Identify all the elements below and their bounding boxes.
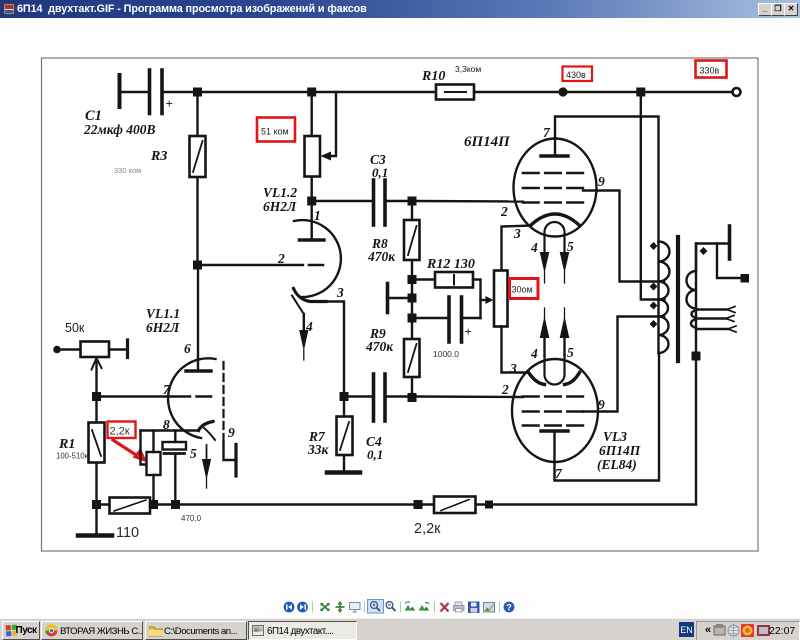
- svg-text:3: 3: [513, 226, 521, 241]
- toolbar icon: save: [469, 602, 480, 613]
- svg-text:6П14П: 6П14П: [464, 134, 511, 150]
- wire VL2 control grid pin 2: [417, 200, 524, 203]
- wire input to C1: [121, 91, 148, 93]
- secondary top T-bar terminal: [728, 226, 732, 259]
- wire secondary output branch: [717, 244, 740, 279]
- red annotation box 51 ком: [257, 118, 295, 142]
- svg-text:3: 3: [336, 285, 344, 300]
- VL1.2 envelope arc: [294, 220, 341, 297]
- svg-text:6Н2Л: 6Н2Л: [263, 199, 297, 214]
- trimmer top lead: [152, 431, 154, 453]
- pot wiper arrowhead: [321, 152, 332, 161]
- pentode VL3 envelope: [512, 359, 598, 462]
- svg-text:6Н2Л: 6Н2Л: [146, 320, 180, 335]
- VL2 grid dashes row2: [523, 187, 583, 190]
- pentode VL2 6П14П envelope: [514, 139, 597, 237]
- svg-text:470к: 470к: [367, 249, 396, 264]
- svg-text:110: 110: [116, 525, 139, 541]
- wire VL3 anode to primary bottom: [555, 353, 660, 481]
- svg-text:R10: R10: [421, 69, 445, 84]
- pot 50к right T-bar: [126, 340, 129, 358]
- svg-text:51 ком: 51 ком: [261, 127, 289, 137]
- wire pot 30ом bottom to VL3 cathode: [502, 327, 529, 373]
- pot 50к wiper arrow: [95, 362, 97, 397]
- node junction B+ at transformer: [636, 88, 645, 97]
- VL3 grid dashes row1: [523, 395, 583, 398]
- pot wiper wire from rail: [328, 92, 336, 156]
- VL1.1 shield dashed line pin 9: [222, 362, 224, 442]
- svg-text:6: 6: [184, 341, 191, 356]
- VL1.2 anode lead pin 1: [311, 205, 313, 239]
- svg-text:0,1: 0,1: [367, 447, 383, 462]
- resistor R8 470к: [404, 220, 420, 260]
- VL3 heater pin 4 arrow up: [540, 316, 550, 338]
- VL1.2 anode plate: [300, 238, 325, 241]
- node junction at 51k pot: [307, 88, 316, 97]
- taskbar: [0, 618, 800, 640]
- wire bottom rail: [97, 503, 697, 505]
- schematic image frame: [42, 58, 759, 551]
- VL2 anode plate pin 7: [541, 154, 568, 157]
- svg-text:2: 2: [277, 251, 285, 266]
- node junction trimmer bottom: [149, 500, 158, 509]
- resistor R10 3,3ком: [436, 85, 474, 100]
- toolbar icon: help: [504, 602, 515, 613]
- input terminal bar (to C1): [118, 75, 122, 107]
- toolbar separator 3: [400, 602, 402, 613]
- secondary output square terminal: [741, 274, 750, 283]
- svg-text:5: 5: [567, 345, 574, 360]
- VL1.2 heater curve: [292, 296, 304, 315]
- wire capacitor to pot wiper line: [464, 317, 481, 319]
- resistor R1 100-510к: [89, 423, 105, 463]
- VL2 grid dashes row3: [523, 201, 583, 204]
- node B junction R8/R12: [408, 275, 417, 284]
- red annotation box 430в: [563, 67, 593, 82]
- wire VL1.2 grid: [202, 264, 303, 266]
- toolbar separator 2: [364, 602, 366, 613]
- primary polarity dot 2: [650, 283, 658, 291]
- node junction at C1/R3: [193, 88, 202, 97]
- svg-text:2: 2: [501, 382, 509, 397]
- svg-text:0,1: 0,1: [372, 165, 388, 180]
- capacitor 470.0 plate (rectangle): [163, 442, 187, 450]
- VL3 grid dashes row3: [523, 424, 583, 427]
- VL3 grid dashes row2: [523, 410, 583, 413]
- svg-text:1: 1: [314, 208, 321, 223]
- svg-text:33к: 33к: [307, 442, 330, 457]
- svg-text:330 ком: 330 ком: [114, 166, 141, 175]
- toolbar separator 4: [434, 602, 436, 613]
- primary polarity dot 1: [650, 242, 658, 250]
- svg-text:4: 4: [530, 240, 538, 255]
- svg-text:2,2к: 2,2к: [414, 521, 441, 537]
- secondary polarity dot: [700, 247, 708, 255]
- trimmer bottom lead: [152, 475, 154, 505]
- wire node B to R12: [417, 278, 436, 280]
- wire VL2 cathode to pot 30ом top: [502, 226, 532, 271]
- toolbar icon: delete: [441, 603, 449, 612]
- input terminal dot: [53, 346, 61, 354]
- node junction VL1.2 cathode / R7 / C4: [340, 392, 349, 401]
- svg-text:(EL84): (EL84): [597, 457, 637, 472]
- potentiometer 30ом body: [494, 271, 508, 327]
- wire cathode bracket to trimmer: [141, 431, 147, 465]
- svg-text:2: 2: [500, 204, 508, 219]
- svg-text:4: 4: [530, 346, 538, 361]
- wire C4 to node C: [387, 395, 408, 397]
- resistor 110 body: [110, 498, 151, 514]
- red annotation box 330в: [696, 61, 727, 78]
- capacitor 470.0 plate (line): [164, 452, 185, 455]
- svg-text:430в: 430в: [566, 70, 586, 80]
- capacitor 470.0 bottom lead: [174, 454, 176, 505]
- wire B+ to primary center tap: [641, 97, 665, 300]
- svg-text:9: 9: [228, 425, 235, 440]
- pot 30ом wiper arrow: [481, 299, 487, 301]
- svg-text:9: 9: [598, 174, 605, 189]
- secondary tap 1: [696, 308, 727, 310]
- VL1.1 heater pin 5 arrow: [206, 445, 208, 462]
- toolbar icon: rotate clockwise: [419, 602, 430, 610]
- svg-text:3: 3: [509, 361, 517, 376]
- VL3 heater loop: [545, 355, 565, 385]
- VL3 cathode arch left: [529, 373, 545, 385]
- node A junction (R3 / VL1.2 grid / VL1.1 anode): [193, 261, 202, 270]
- node C junction R9/C4/VL3 grid: [408, 393, 417, 402]
- svg-text:470к: 470к: [365, 339, 394, 354]
- red annotation box 2,2к: [108, 422, 136, 439]
- wire pot 50к right terminal: [109, 348, 126, 350]
- svg-text:R3: R3: [150, 149, 167, 164]
- svg-text:3,3ком: 3,3ком: [455, 64, 481, 74]
- primary polarity dot 3: [650, 302, 658, 310]
- VL1.1 envelope arc: [168, 358, 215, 438]
- transformer T1 primary winding: [657, 242, 659, 354]
- toolbar icon: edit picture: [484, 603, 495, 613]
- pin 9 terminal bar: [234, 445, 237, 477]
- wire node to C4: [349, 395, 372, 397]
- resistor R3 330ком: [190, 136, 206, 177]
- svg-text:VL1.1: VL1.1: [146, 306, 180, 321]
- node junction feedback resistor right: [485, 501, 493, 509]
- svg-text:9: 9: [598, 397, 605, 412]
- toolbar icon: zoom out: [386, 602, 395, 611]
- VL2 heater pin 5 arrow: [560, 252, 570, 273]
- svg-text:+: +: [465, 324, 472, 339]
- node junction secondary bottom: [692, 352, 701, 361]
- VL3 heater pin 5 arrow up: [560, 316, 570, 338]
- capacitor C1 22мкф 400В: [150, 70, 163, 114]
- VL1.2 heater lead pin 4 arrow: [303, 314, 305, 333]
- toolbar icon: actual size: [336, 602, 345, 612]
- svg-text:50к: 50к: [65, 321, 85, 335]
- primary polarity dot 4: [650, 320, 658, 328]
- wire pin 9 to terminal bar: [224, 442, 235, 460]
- toolbar icon: rotate counterclockwise: [405, 602, 416, 610]
- secondary tap 2: [696, 317, 726, 319]
- svg-text:EN: EN: [680, 625, 693, 635]
- tap T-bar: [389, 297, 408, 299]
- toolbar icon: next image: [297, 602, 308, 613]
- wire VL1.1 cathode to bias network: [141, 429, 199, 431]
- wire junction to pot R2: [311, 92, 313, 201]
- VL2 heater loop: [545, 222, 565, 252]
- svg-text:+: +: [166, 96, 173, 111]
- node junction grid tap: [408, 294, 417, 303]
- toolbar icon: print: [454, 602, 465, 612]
- wire C3 to R8 node: [387, 200, 408, 202]
- resistor R12 130: [435, 272, 473, 288]
- wire node C to VL3 grid: [417, 395, 524, 398]
- transformer core: [676, 237, 680, 361]
- wire C1 to R10: [164, 91, 437, 93]
- wire VL2 screen pin 9 to primary tap: [583, 191, 664, 282]
- svg-text:1000.0: 1000.0: [433, 349, 459, 359]
- wire VL3 screen pin 9 to primary tap: [583, 317, 664, 412]
- wire VL2 anode to transformer primary top: [555, 117, 659, 242]
- toolbar icon: previous image: [284, 602, 295, 613]
- trimmer resistor 2,2к body: [147, 452, 161, 475]
- svg-text:5: 5: [190, 446, 197, 461]
- wire secondary bottom to feedback rail: [695, 356, 697, 505]
- svg-text:30ом: 30ом: [512, 285, 533, 295]
- measurement node dot 430в: [558, 87, 567, 96]
- wire VL1.2 cathode down to C4 node: [326, 302, 344, 393]
- node junction feedback resistor left: [414, 500, 423, 509]
- capacitor C3 0,1: [374, 180, 386, 225]
- wire middle column: [411, 205, 413, 393]
- wire R7 column: [343, 401, 345, 471]
- svg-text:100-510к: 100-510к: [56, 452, 89, 461]
- toolbar icon: zoom in (selected): [368, 600, 384, 614]
- svg-text:5: 5: [567, 239, 574, 254]
- svg-text:R12 130: R12 130: [426, 257, 475, 272]
- title bar: [0, 0, 800, 18]
- resistor R7 33к: [337, 417, 353, 456]
- red annotation box 30ом: [510, 279, 539, 299]
- VL2 heater pin 4 arrow: [540, 252, 550, 273]
- ground bar at R1: [78, 533, 112, 538]
- VL1.1 heater curve: [204, 428, 215, 440]
- wire R12 to pot wiper: [473, 280, 481, 319]
- VL1.1 anode plate pin 6: [186, 369, 211, 372]
- capacitor 470.0 top lead: [174, 431, 176, 443]
- wire R1 column: [95, 401, 97, 534]
- VL1.1 cathode pin 8: [199, 422, 214, 431]
- wire input to pot 50к: [59, 348, 81, 350]
- VL1.2 cathode: [294, 289, 327, 302]
- VL3 anode plate: [541, 429, 568, 432]
- red annotation arrow: [113, 440, 136, 455]
- node junction R1 bottom: [92, 500, 101, 509]
- capacitor C4 0,1: [374, 374, 386, 421]
- svg-text:?: ?: [506, 603, 512, 613]
- VL3 cathode arch right: [565, 373, 580, 385]
- wire node A to VL1.1 anode: [197, 269, 199, 370]
- node junction C3/R8/VL2 grid: [408, 197, 417, 206]
- open terminal 330в: [733, 88, 741, 96]
- wire VL1.1 grid pin 7: [101, 395, 190, 397]
- wire R10 to B+ terminal: [474, 91, 732, 93]
- ground bar at R7: [327, 470, 360, 475]
- wire secondary top lead: [696, 244, 728, 272]
- toolbar icon: best fit: [321, 604, 329, 611]
- transformer secondary winding: [695, 244, 697, 357]
- svg-text:330в: 330в: [700, 66, 720, 76]
- VL2 grid dashes row1: [523, 172, 583, 175]
- wire anode node to C3: [316, 200, 371, 202]
- svg-text:470.0: 470.0: [181, 514, 202, 523]
- VL2 cathode arch: [531, 214, 579, 225]
- node junction VL1.2 anode: [307, 197, 316, 206]
- svg-text:2,2к: 2,2к: [110, 426, 130, 438]
- svg-text:4: 4: [305, 319, 313, 334]
- node junction cap 1000: [408, 314, 417, 323]
- svg-text:R1: R1: [58, 437, 75, 452]
- secondary tap 3: [696, 328, 728, 330]
- resistor R9 470к: [404, 339, 420, 377]
- svg-text:22мкф 400В: 22мкф 400В: [83, 122, 156, 137]
- node junction capacitor bottom: [171, 500, 180, 509]
- svg-text:6П14П: 6П14П: [599, 443, 641, 458]
- toolbar separator 5: [499, 602, 501, 613]
- node junction 50к wiper / VL1.1 grid: [92, 392, 101, 401]
- svg-text:VL3: VL3: [603, 429, 627, 444]
- svg-text:VL1.2: VL1.2: [263, 185, 297, 200]
- wire junction to R3 and node A: [196, 92, 198, 265]
- potentiometer 50к body: [81, 342, 110, 358]
- feedback resistor 2,2к body: [434, 497, 476, 514]
- wire node to capacitor 1000.0: [417, 317, 448, 319]
- toolbar icon: slideshow: [350, 603, 361, 613]
- potentiometer 51 ком body: [305, 136, 321, 177]
- toolbar separator 1: [312, 602, 314, 613]
- capacitor 1000.0 electrolytic: [449, 297, 462, 342]
